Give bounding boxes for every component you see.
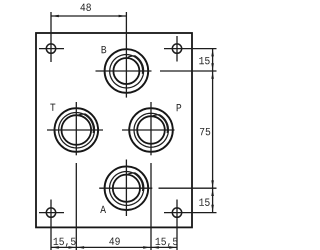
port T outer circle: [55, 108, 99, 152]
port B horizontal center line: [96, 70, 152, 72]
port P vertical center line: [150, 102, 152, 155]
port A inner bore circle: [113, 175, 140, 202]
arrowhead right-dim 15 bottom pointing down: [211, 205, 214, 212]
port label B: [102, 46, 107, 53]
port label P: [177, 104, 182, 111]
bolt hole top-left horizontal center line: [39, 48, 64, 50]
bolt hole top-right horizontal center line (extension to right dim): [164, 48, 217, 50]
port A thread spiral: [110, 172, 144, 206]
port P inner bore circle: [137, 116, 165, 144]
arrowhead right-dim 15 top pointing down: [211, 63, 214, 70]
port B inner bore circle: [113, 58, 139, 84]
dimension text 15 bottom right: [199, 199, 209, 206]
arrowhead right-dim 15 top pointing up: [211, 49, 214, 56]
dimension text 75: [200, 128, 210, 135]
dimension text 15,5 left: [54, 238, 76, 247]
arrowhead right-dim 75 pointing up: [211, 72, 214, 79]
bolt hole bottom-right circle: [172, 208, 181, 217]
port A vertical center line: [125, 160, 127, 217]
dimension line 48 (top): [51, 15, 126, 17]
port T extension line to bottom dimension: [75, 163, 77, 250]
port P extension line to bottom dimension: [150, 163, 152, 250]
port P outer circle: [129, 108, 173, 152]
dimension text 49: [109, 237, 119, 244]
dimension text 15 top right: [199, 57, 209, 64]
bolt hole top-left circle: [46, 44, 55, 53]
arrowhead 48 right: [119, 15, 126, 18]
bolt hole bottom-left circle: [46, 208, 55, 217]
arrowhead bottom 15,5-left pointing left: [52, 246, 59, 249]
dimension text 15,5 right: [156, 238, 178, 247]
arrowhead right-dim 75 pointing down: [211, 180, 214, 187]
port T vertical center line: [75, 102, 77, 155]
port A horizontal center line: [99, 187, 152, 189]
port B vertical center line (merges with 48-dim extension): [125, 12, 127, 98]
port A extension line to right dimension: [159, 187, 217, 189]
arrowhead bottom 15,5-left pointing right: [69, 246, 76, 249]
port T thread spiral: [59, 113, 95, 149]
bottom dimension line (15,5 / 49 / 15,5): [51, 246, 177, 248]
bolt hole bottom-left horizontal center line: [39, 212, 64, 214]
bolt hole top-left vertical center line (extension to 48 dim): [50, 12, 52, 62]
arrowhead bottom 15,5-right pointing right: [169, 246, 176, 249]
port label A: [100, 206, 106, 213]
bolt hole top-right vertical center line: [176, 36, 178, 62]
bolt hole top-right circle: [172, 44, 181, 53]
port P horizontal center line: [122, 129, 175, 131]
arrowhead right-dim 15 bottom pointing up: [211, 189, 214, 196]
bolt hole bottom-right horizontal center line (extension to right dim): [164, 212, 217, 214]
port A outer circle: [105, 166, 149, 210]
arrowhead 48 left: [52, 15, 59, 18]
right dimension line (15 / 75 / 15): [212, 49, 214, 213]
port T horizontal center line: [47, 129, 103, 131]
port B outer circle: [105, 49, 149, 93]
arrowhead bottom 15,5-right pointing left: [152, 246, 159, 249]
dimension text 48: [80, 4, 91, 11]
port P thread spiral: [134, 113, 168, 147]
bolt hole bottom-left vertical center line (extension to bottom dim): [50, 200, 52, 250]
arrowhead bottom 49 pointing right: [143, 246, 150, 249]
bolt hole bottom-right vertical center line (extension to bottom dim): [176, 200, 178, 250]
port B extension line to right dimension: [160, 70, 217, 72]
arrowhead bottom 49 pointing left: [77, 246, 84, 249]
port B thread spiral: [110, 55, 144, 89]
port label T: [50, 104, 55, 111]
port T inner bore circle: [62, 115, 92, 145]
mounting plate outline: [36, 33, 192, 227]
